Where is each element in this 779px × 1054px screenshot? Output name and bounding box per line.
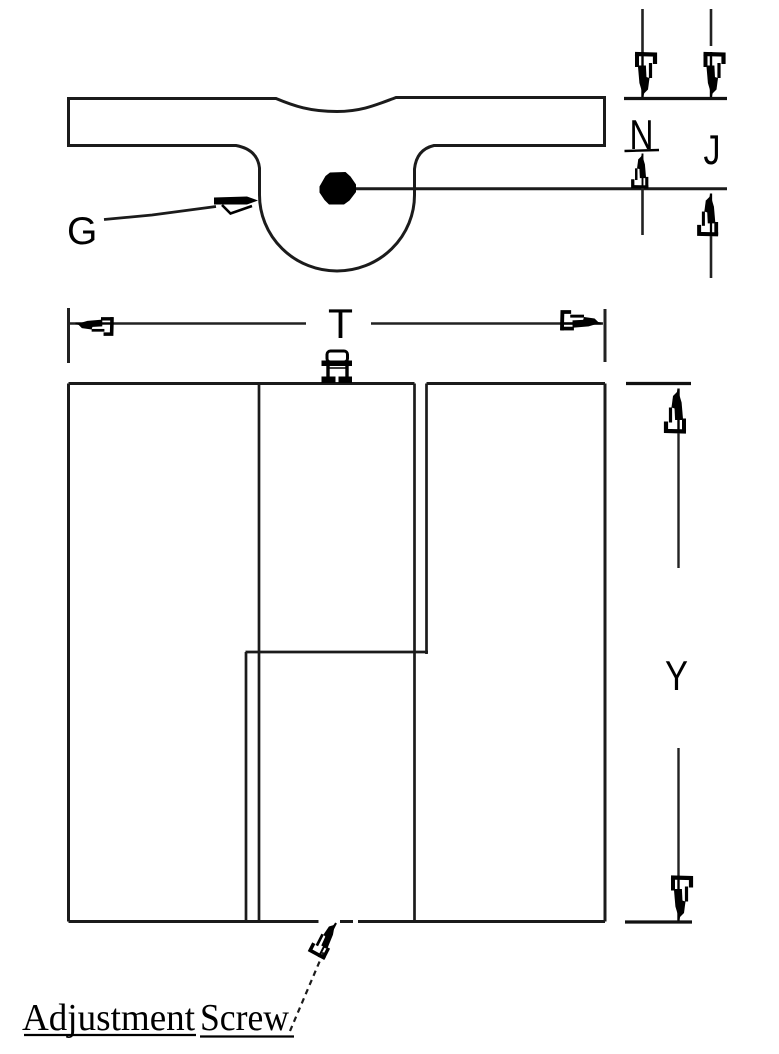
N/J common extension tick at top surface [624, 97, 727, 100]
dimension J lower shaft [710, 236, 713, 278]
front view outer rectangle top edge (left+middle) [69, 382, 415, 385]
front view outer rectangle top edge (right) [427, 382, 606, 385]
Y upper shaft [677, 433, 679, 568]
dimension N lower shaft [641, 188, 644, 235]
T dimension line right part [371, 322, 603, 325]
svg-text:T: T [328, 300, 353, 347]
underline Adjustment [24, 1034, 196, 1036]
gib left edge (inner vertical) [258, 384, 261, 922]
Y bottom arrow (down) [671, 876, 691, 921]
N label underline [625, 150, 660, 151]
adjustment screw icon on top edge [322, 351, 353, 383]
hex screw head (black) in top view [320, 172, 357, 205]
svg-text:Y: Y [665, 652, 688, 699]
dimension N lower arrow (up) [633, 154, 649, 189]
G leader arrowhead [214, 197, 258, 214]
lower-left block edge [245, 652, 248, 922]
T left arrow (points left) [76, 317, 114, 334]
step line [246, 651, 429, 654]
T right extension line [604, 309, 607, 362]
front view bottom edge small dash [340, 920, 353, 923]
adjustment screw leader arrowhead [309, 918, 342, 960]
leader line from G [104, 207, 216, 220]
dimension J upper shaft [710, 9, 713, 46]
underline Screw [200, 1035, 294, 1037]
centerline through hex head [356, 187, 727, 190]
dimension N upper arrow (down) [635, 52, 655, 97]
gib right edge (inner vertical) [413, 384, 416, 922]
top view body outline [69, 98, 605, 272]
front view bottom edge right part [358, 920, 605, 923]
dimension N upper shaft [641, 9, 644, 54]
svg-text:G: G [67, 210, 97, 253]
dimension J upper arrow (down) [704, 52, 724, 97]
Y top arrow (up) [666, 389, 686, 434]
svg-text:Screw: Screw [200, 997, 290, 1039]
Y bottom extension tick [625, 920, 692, 923]
front view bottom edge left part [69, 920, 319, 923]
front view left edge [67, 384, 70, 922]
Y top extension tick [626, 382, 691, 385]
T left extension line [67, 308, 70, 363]
adjustment screw leader line (dashed) [290, 937, 330, 1031]
svg-text:J: J [704, 126, 721, 173]
T dimension line left part [70, 322, 306, 325]
right block left edge [425, 384, 428, 655]
dimension J lower arrow (up) [699, 194, 718, 237]
Y lower shaft [677, 748, 679, 876]
front view right edge [604, 384, 607, 922]
svg-text:Adjustment: Adjustment [22, 997, 195, 1039]
T right arrow (points right) [560, 312, 601, 330]
